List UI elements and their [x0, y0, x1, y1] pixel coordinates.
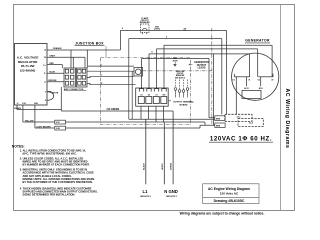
wire N white: [163, 122, 165, 184]
svg-text:GREEN: GREEN: [14, 108, 22, 110]
svg-text:N GND: N GND: [164, 189, 178, 194]
wire grey: [47, 57, 73, 68]
svg-text:BLUE: BLUE: [50, 71, 56, 73]
splice box 1: [55, 120, 66, 124]
board drops: [141, 106, 164, 122]
svg-text:V1: V1: [155, 94, 157, 96]
svg-text:U1: U1: [140, 94, 142, 96]
junction box boundary (dash-dot): [101, 28, 212, 125]
svg-text:OUTPUT TERMINAL: OUTPUT TERMINAL: [173, 101, 195, 104]
wire GND green: [172, 111, 174, 184]
bundle arrow: [173, 64, 177, 67]
wires connector to junction components: [87, 39, 136, 120]
leader to board: [168, 100, 171, 102]
generator G1: [232, 53, 279, 100]
green bus riser: [60, 87, 62, 111]
wire brown: [47, 81, 64, 83]
yellow bus: [66, 122, 215, 125]
generator boundary dash-dot: [211, 28, 213, 125]
dashed generator leads: [176, 80, 188, 90]
svg-text:#10 GREEN: #10 GREEN: [107, 109, 120, 111]
splice box 2: [55, 126, 66, 130]
bottom wire labels: [14, 108, 120, 129]
svg-text:SEE NOTE 3: SEE NOTE 3: [140, 196, 151, 198]
wire row b: [87, 70, 134, 72]
top bus A: [120, 30, 226, 114]
sidebar divider line: [280, 5, 282, 211]
svg-text:AC Wiring Diagrams: AC Wiring Diagrams: [284, 88, 290, 148]
output terminal board label: [173, 101, 195, 107]
wire orange riser: [119, 30, 121, 50]
svg-text:NOTES:: NOTES:: [12, 144, 25, 148]
breaker labels: [140, 17, 150, 24]
svg-text:SIZING DETERMINED PER INSTALLA: SIZING DETERMINED PER INSTALLATION.: [23, 193, 76, 197]
winding U1 drop: [235, 77, 237, 115]
title block: [203, 184, 259, 204]
svg-text:BOARD: BOARD: [179, 104, 187, 107]
regulator text: [17, 56, 39, 73]
svg-text:BY THE CUSTOMER AT THE CUSTOME: BY THE CUSTOMER AT THE CUSTOMER'S DISCRE…: [23, 180, 93, 184]
junction riser to bus B: [128, 39, 130, 67]
notes body: [20, 148, 98, 196]
svg-text:WHITE: WHITE: [52, 92, 59, 94]
wire t2 up: [149, 54, 250, 88]
svg-text:BRN: BRN: [216, 118, 221, 120]
wire orange: [47, 49, 120, 51]
wires from regulator: [47, 30, 120, 100]
leads arrow: [189, 64, 193, 66]
wires board to generator: [142, 45, 273, 125]
svg-text:LIGHT BROWN: LIGHT BROWN: [36, 126, 51, 128]
wire color labels: [49, 47, 63, 94]
svg-text:V1: V1: [248, 79, 250, 81]
exciter labels: [244, 87, 263, 90]
svg-text:Drawing #B-6105C: Drawing #B-6105C: [214, 199, 245, 203]
wire row a: [88, 65, 134, 67]
svg-text:ORANGE: ORANGE: [53, 47, 62, 50]
svg-text:BCH: BCH: [259, 88, 264, 90]
gen leads text block: [175, 70, 185, 79]
wire green from U: [17, 105, 61, 110]
svg-text:SEE NOTE 4: SEE NOTE 4: [175, 76, 185, 79]
svg-text:120VAC 1Φ 60 HZ.: 120VAC 1Φ 60 HZ.: [210, 135, 272, 142]
svg-text:3: 3: [101, 64, 102, 66]
border frame: [14, 5, 295, 211]
bus A drop right: [225, 30, 227, 114]
loop terminal 1 to 2: [47, 92, 54, 101]
exciter box: [242, 91, 261, 99]
wire t4 up: [164, 45, 272, 88]
svg-text:Wiring diagrams are subject to: Wiring diagrams are subject to change wi…: [180, 211, 265, 215]
wire w2 drop: [213, 54, 214, 125]
svg-text:BROWN: BROWN: [49, 80, 57, 82]
BRN terminal 1: [215, 116, 225, 121]
junction drop 1: [128, 66, 130, 119]
wire yellow: [23, 105, 55, 122]
bus B: [129, 38, 222, 40]
node tick: [184, 29, 186, 31]
pin squares: [138, 97, 144, 104]
svg-text:90°C, TYPE W/TW, MULTISTRAND,: 90°C, TYPE W/TW, MULTISTRAND, 600 VAC.: [23, 151, 78, 155]
wire w1 drop: [209, 59, 215, 118]
svg-text:BY NUMBER MARKER AT EACH CONNE: BY NUMBER MARKER AT EACH CONNECTION POIN…: [23, 163, 90, 167]
svg-text:AC31: AC31: [244, 87, 249, 90]
wire lt brown: [35, 105, 55, 128]
svg-text:U1: U1: [233, 79, 235, 81]
regulator U1 box: [15, 44, 48, 106]
svg-text:OUTPUT: OUTPUT: [197, 65, 207, 67]
svg-text:BRN: BRN: [216, 126, 221, 128]
svg-text:120 Volts AC: 120 Volts AC: [220, 192, 239, 196]
title block text: [208, 187, 250, 203]
svg-text:W2: W2: [163, 94, 166, 96]
svg-text:BREAKER: BREAKER: [140, 21, 150, 24]
wire red: [47, 65, 62, 68]
svg-text:BLACK: BLACK: [142, 162, 145, 170]
svg-text:W: W: [101, 83, 103, 85]
board terminal labels: [140, 94, 165, 96]
wire L1 black: [145, 119, 147, 184]
wire orange tap 2: [86, 50, 88, 68]
wire grey extension taps: [73, 57, 85, 68]
tabs: [139, 89, 143, 92]
svg-text:GENERATOR: GENERATOR: [194, 61, 209, 64]
wire orange tap down: [70, 50, 72, 68]
svg-text:GENERATOR: GENERATOR: [245, 38, 270, 42]
lead pins: [174, 88, 189, 98]
bus B drop right: [221, 39, 223, 115]
stator winding bars: [234, 74, 273, 87]
green bus wires: [17, 87, 215, 128]
customer breaker box: [225, 114, 263, 126]
svg-text:F-: F-: [44, 73, 46, 75]
wire t3 up: [157, 49, 258, 88]
generator output leads label: [194, 61, 209, 69]
bus one: [129, 118, 215, 120]
svg-text:U2: U2: [258, 79, 260, 81]
svg-text:U2: U2: [148, 94, 150, 96]
svg-text:JUNCTION BOX: JUNCTION BOX: [75, 41, 104, 45]
regulator bottom terminals U 120 240: [17, 102, 39, 105]
wire blue: [47, 72, 64, 74]
svg-text:SEE NOTE 3: SEE NOTE 3: [166, 196, 177, 198]
junction box leader: [105, 46, 107, 57]
wire number labels: [101, 64, 103, 85]
svg-text:LEADS: LEADS: [198, 67, 206, 70]
ct centerline dash-dot: [143, 70, 212, 72]
svg-text:(22-69006): (22-69006): [20, 68, 35, 72]
green bus: [61, 110, 173, 112]
winding terminal labels: [233, 79, 274, 81]
svg-text:GREY: GREY: [50, 56, 56, 58]
svg-text:L1: L1: [143, 189, 149, 194]
svg-text:GREEN: GREEN: [170, 162, 172, 170]
svg-text:RED: RED: [50, 63, 55, 65]
wire row c: [87, 76, 134, 77]
regulator right edge pin labels: [43, 49, 46, 103]
svg-text:YELLOW: YELLOW: [25, 120, 34, 122]
wire t1 up: [142, 59, 210, 89]
generator leads note: [173, 58, 179, 64]
AMP connector J1: [64, 68, 87, 87]
BRN terminal 2: [215, 123, 225, 127]
wire white stub: [47, 91, 52, 93]
current transformer T1: [134, 68, 143, 77]
load drops L1 N GND: [146, 111, 173, 184]
svg-text:WHITE: WHITE: [162, 163, 164, 170]
junction drop 2: [131, 71, 133, 119]
output terminal board TB2: [136, 88, 169, 106]
circuit breaker CB1: [141, 24, 150, 34]
svg-text:V2: V2: [271, 79, 273, 81]
wire row d: [87, 84, 136, 85]
brown bus: [66, 125, 205, 128]
